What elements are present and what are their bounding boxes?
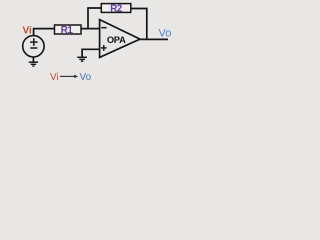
svg-text:Vo: Vo <box>159 28 172 40</box>
caption arrow <box>60 75 76 77</box>
plus sign inside source <box>30 41 38 43</box>
voltage source Vi (circle with plus-minus) <box>23 36 44 57</box>
wire: op-amp output to Vo <box>140 38 169 40</box>
minus sign inside source <box>30 47 37 49</box>
op-amp U1 (OPA) triangle <box>100 20 140 58</box>
wire: R1 to op-amp inverting input <box>81 28 100 30</box>
svg-text:Vi: Vi <box>50 72 59 83</box>
svg-text:R2: R2 <box>110 3 122 14</box>
ground (op-amp + input) <box>77 57 87 61</box>
wire: source bottom stub to ground <box>32 57 34 63</box>
svg-text:Vi: Vi <box>23 25 32 36</box>
resistor R2 <box>101 4 131 13</box>
wire: R2 right to output node <box>131 9 147 40</box>
wire: source top stub and horizontal run to R1 <box>34 29 55 37</box>
wire: non-inverting input to ground <box>82 49 100 57</box>
wire: feedback riser from node to R2 <box>88 8 101 29</box>
svg-text:Vo: Vo <box>80 72 92 83</box>
svg-text:R1: R1 <box>61 25 74 36</box>
resistor R1 <box>55 25 82 34</box>
ground (under source) <box>29 62 38 66</box>
svg-text:OPA: OPA <box>107 35 126 45</box>
op-amp minus sign <box>101 27 106 29</box>
op-amp plus sign <box>101 47 107 49</box>
